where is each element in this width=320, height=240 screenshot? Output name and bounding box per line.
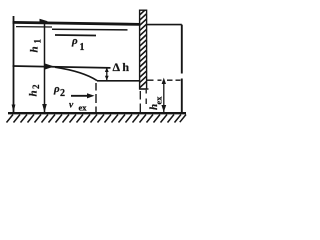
right tank rim [147, 24, 182, 26]
label h2 (rotated) [28, 84, 42, 97]
interface level arrow [45, 64, 54, 70]
svg-text:2: 2 [60, 88, 65, 99]
downstream level dashed line [147, 79, 181, 81]
left tank wall (dimension line) [13, 16, 15, 113]
svg-text:1: 1 [33, 39, 43, 44]
ground line [8, 112, 186, 114]
inner line bottom arrowhead [42, 104, 47, 113]
h_ex dimension line [163, 81, 165, 113]
gate plane dashed line below [140, 90, 146, 112]
svg-text:Δ h: Δ h [113, 60, 130, 74]
svg-text:h: h [28, 90, 40, 96]
svg-text:ex: ex [153, 96, 163, 105]
label h_ex (rotated) [148, 96, 163, 110]
delta-h top arrowhead [105, 67, 109, 72]
exit section dashed line [95, 83, 97, 112]
hatched gate wall [140, 10, 147, 89]
ground hatching [7, 115, 187, 123]
svg-text:ρ: ρ [53, 83, 60, 95]
free surface of fluid 1 [13, 22, 141, 24]
surface shading line b [52, 28, 128, 31]
drawdown curve [55, 67, 97, 80]
svg-text:h: h [29, 46, 41, 52]
svg-text:2: 2 [31, 84, 41, 89]
label h1 (rotated) [29, 39, 43, 53]
h_ex top arrowhead [162, 78, 166, 84]
left wall bottom arrowhead [12, 105, 16, 113]
interface line between fluids [13, 66, 111, 68]
exit velocity arrow v_ex [71, 95, 89, 97]
surface shading line c [55, 34, 96, 37]
depressed surface near gate [97, 80, 140, 82]
right tank wall [181, 25, 183, 113]
inner vertical line (h1/h2 dimension) [44, 22, 46, 113]
h_ex bottom arrowhead [161, 105, 166, 112]
svg-text:1: 1 [80, 42, 85, 53]
gate hatching [140, 9, 147, 88]
gate bottom tick [140, 88, 149, 90]
delta-h bottom arrowhead [105, 76, 109, 81]
surface shading line a [16, 26, 52, 28]
svg-text:ρ: ρ [71, 35, 78, 47]
delta-h dimension line [106, 68, 108, 80]
svg-text:ex: ex [79, 103, 88, 113]
free surface level arrow [40, 19, 48, 24]
